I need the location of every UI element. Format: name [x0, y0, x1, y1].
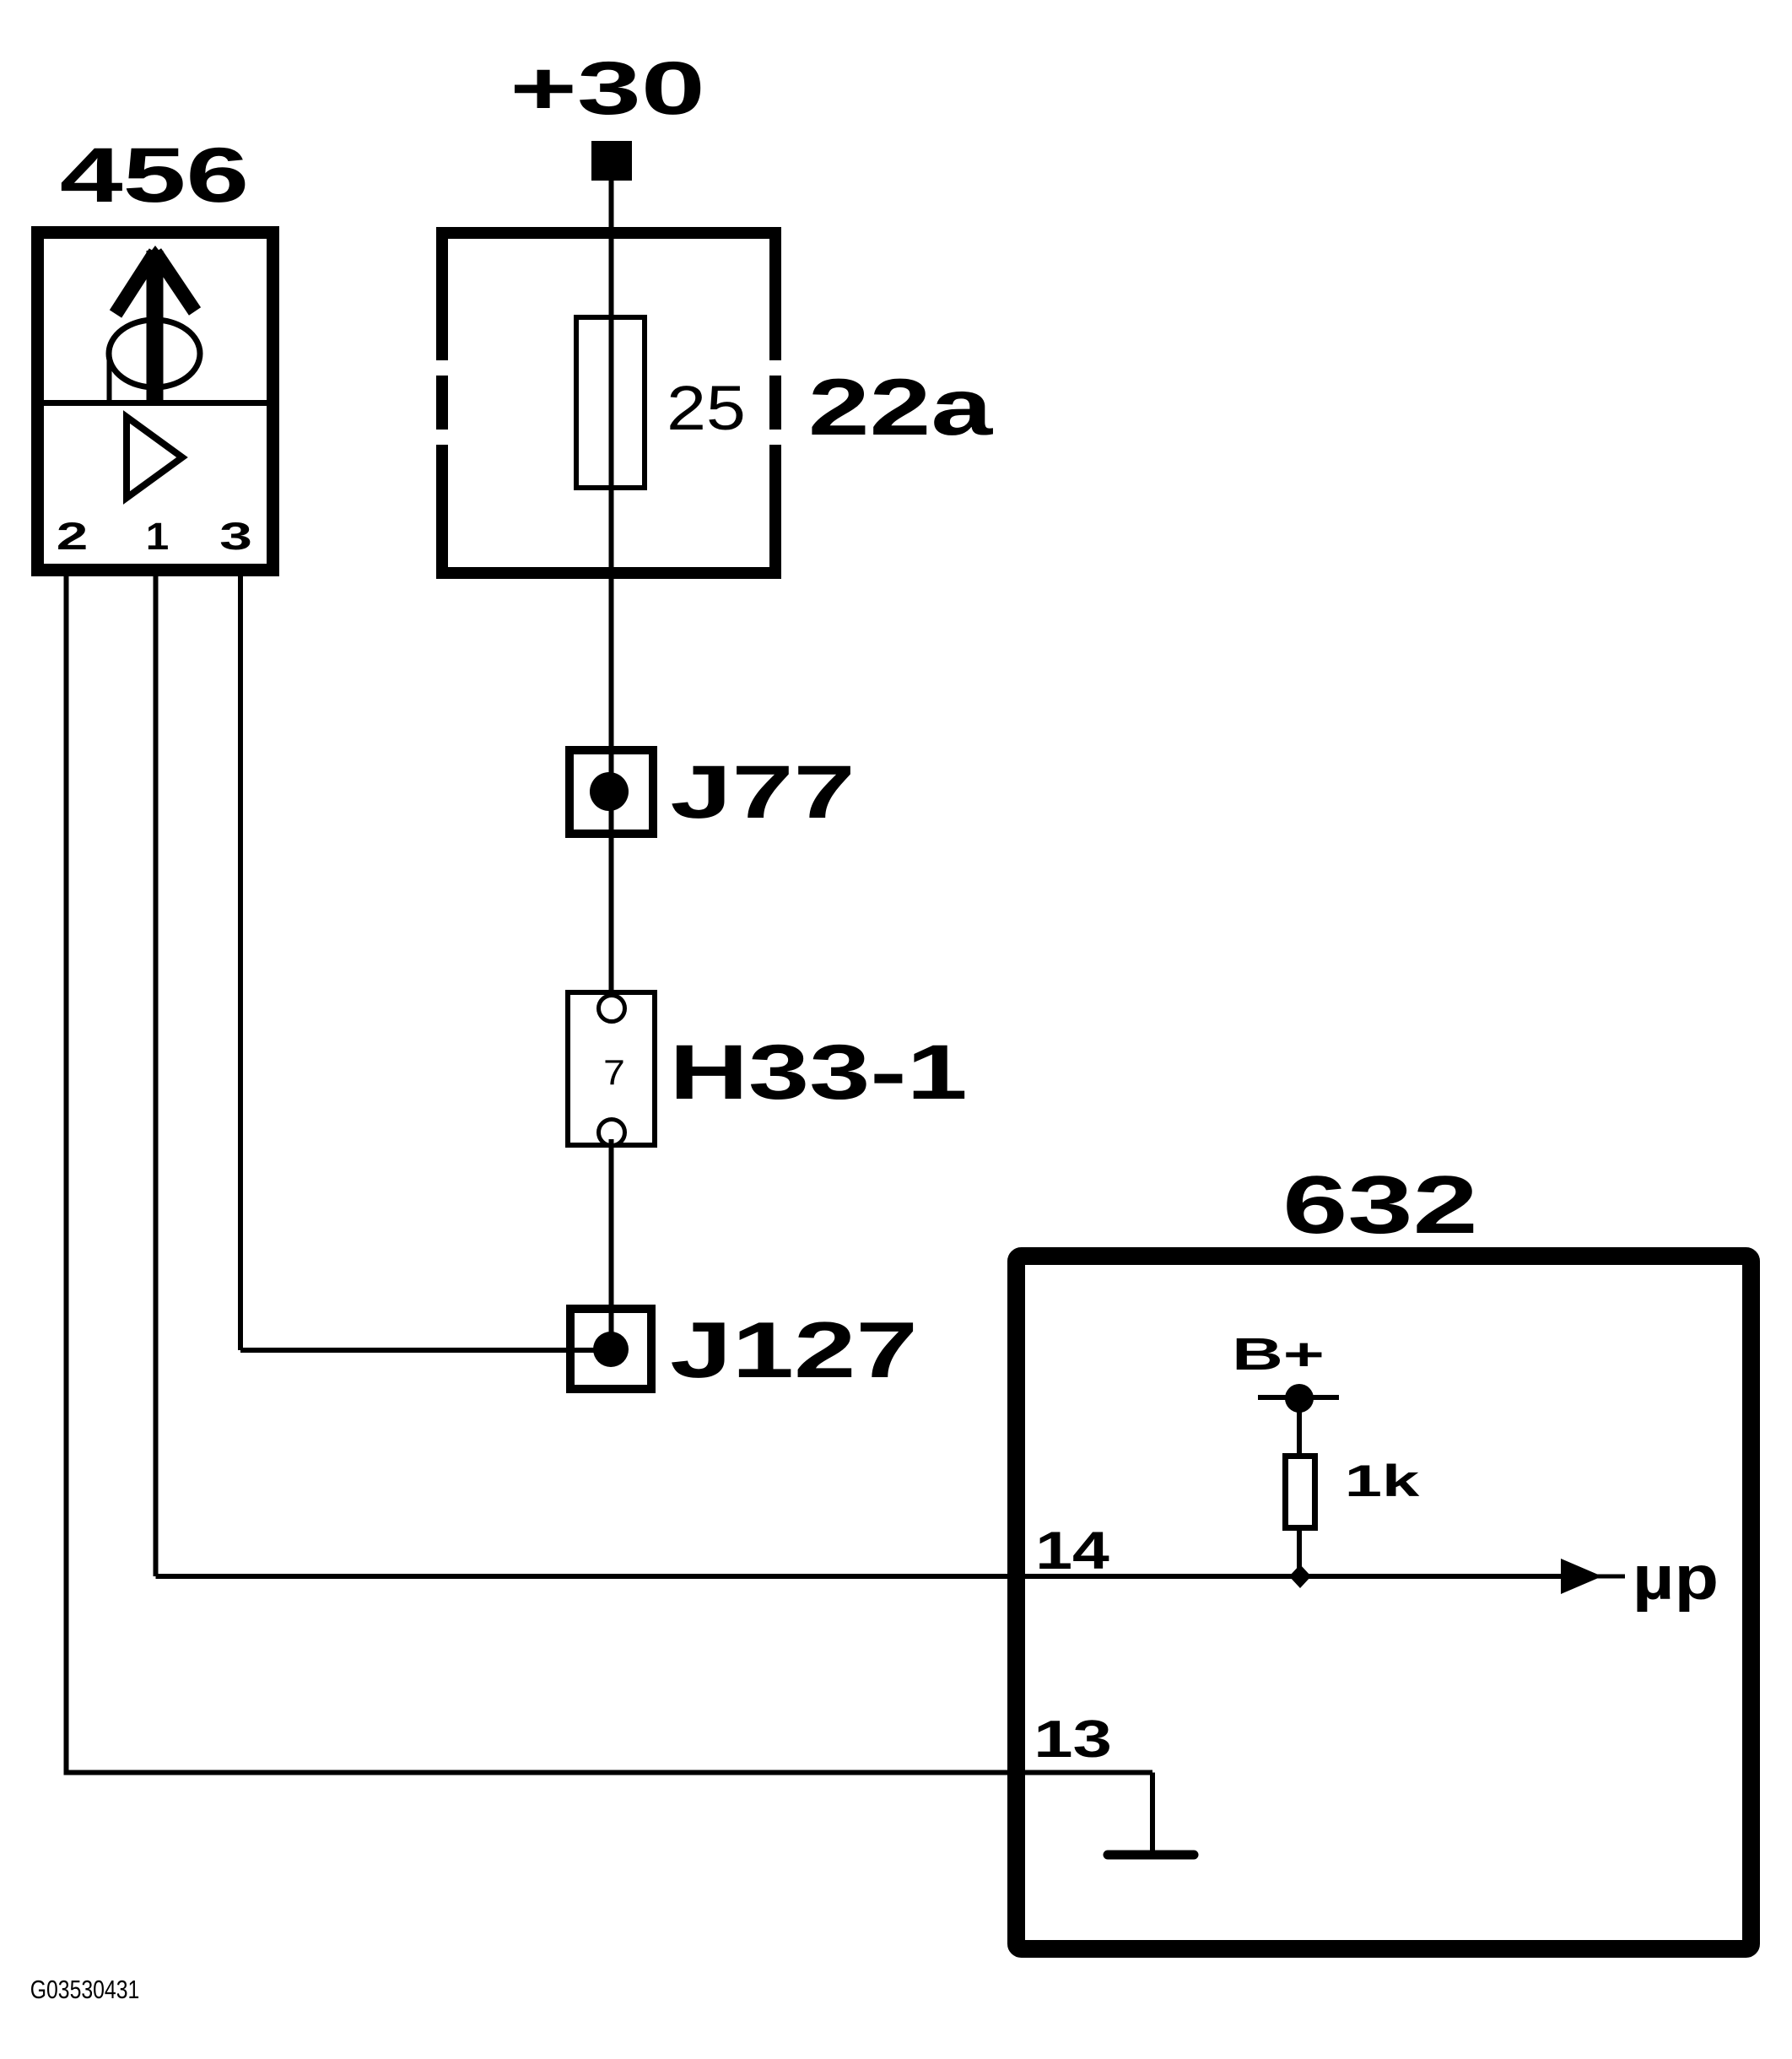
- wire pin3 456 to J127: [238, 576, 243, 1350]
- junction diamond: [1289, 1565, 1311, 1588]
- svg-text:H33-1: H33-1: [669, 1029, 968, 1116]
- connector H33-1 box: [568, 992, 655, 1145]
- svg-text:J77: J77: [670, 749, 855, 834]
- wire H33-1 to J127: [609, 1139, 614, 1349]
- svg-text:3: 3: [219, 516, 252, 558]
- svg-text:+30: +30: [510, 46, 705, 130]
- svg-text:µp: µp: [1633, 1543, 1719, 1612]
- svg-text:13: 13: [1034, 1710, 1112, 1769]
- motor arrow head: [116, 252, 155, 314]
- motor tick: [107, 357, 112, 403]
- motor arrow shaft: [147, 251, 164, 403]
- motor ellipse: [109, 320, 200, 387]
- svg-text:7: 7: [603, 1053, 625, 1093]
- splice J77 dot: [590, 772, 629, 811]
- fuse box gap left lower: [433, 430, 451, 445]
- svg-text:1k: 1k: [1345, 1456, 1420, 1506]
- connector 456 box: [38, 233, 273, 570]
- node +30 terminal square: [591, 141, 632, 181]
- fuse box 22a outline: [442, 233, 775, 573]
- svg-text:B+: B+: [1232, 1328, 1325, 1379]
- pump triangle: [127, 417, 182, 498]
- svg-text:14: 14: [1035, 1521, 1109, 1581]
- connector 456 divider: [37, 400, 273, 406]
- svg-text:G03530431: G03530431: [30, 1975, 140, 2003]
- node B+ dot: [1285, 1384, 1314, 1413]
- ground symbol: [1108, 1851, 1194, 1860]
- svg-text:22a: 22a: [808, 363, 994, 452]
- wire B+ to resistor: [1297, 1398, 1302, 1456]
- svg-text:1: 1: [146, 516, 170, 558]
- wire pin2 456 to ground: [64, 576, 69, 1773]
- svg-text:2: 2: [57, 516, 89, 558]
- svg-text:632: 632: [1282, 1159, 1478, 1251]
- fuse 25 element: [576, 317, 645, 488]
- fuse box gap left upper: [433, 360, 451, 376]
- fuse box gap right lower: [766, 430, 785, 445]
- wire +30 to J77: [609, 181, 614, 835]
- fuse box gap right upper: [766, 360, 785, 376]
- module 632 box: [1017, 1256, 1752, 1949]
- resistor 1k: [1286, 1456, 1315, 1528]
- connector H33-1 bottom terminal: [599, 1120, 625, 1146]
- connector H33-1 top terminal: [599, 996, 625, 1022]
- svg-text:456: 456: [60, 132, 249, 219]
- wire J77 to H33-1: [609, 832, 614, 1010]
- splice J77 box: [569, 750, 653, 834]
- wire resistor to junction: [1297, 1528, 1302, 1576]
- svg-text:25: 25: [667, 373, 746, 443]
- arrow to microprocessor: [1561, 1559, 1602, 1594]
- svg-text:J127: J127: [670, 1306, 918, 1395]
- splice J127 box: [570, 1309, 651, 1389]
- node B+ bar: [1258, 1395, 1339, 1400]
- wire pin1 456 to microprocessor: [154, 576, 159, 1576]
- splice J127 dot: [593, 1332, 629, 1367]
